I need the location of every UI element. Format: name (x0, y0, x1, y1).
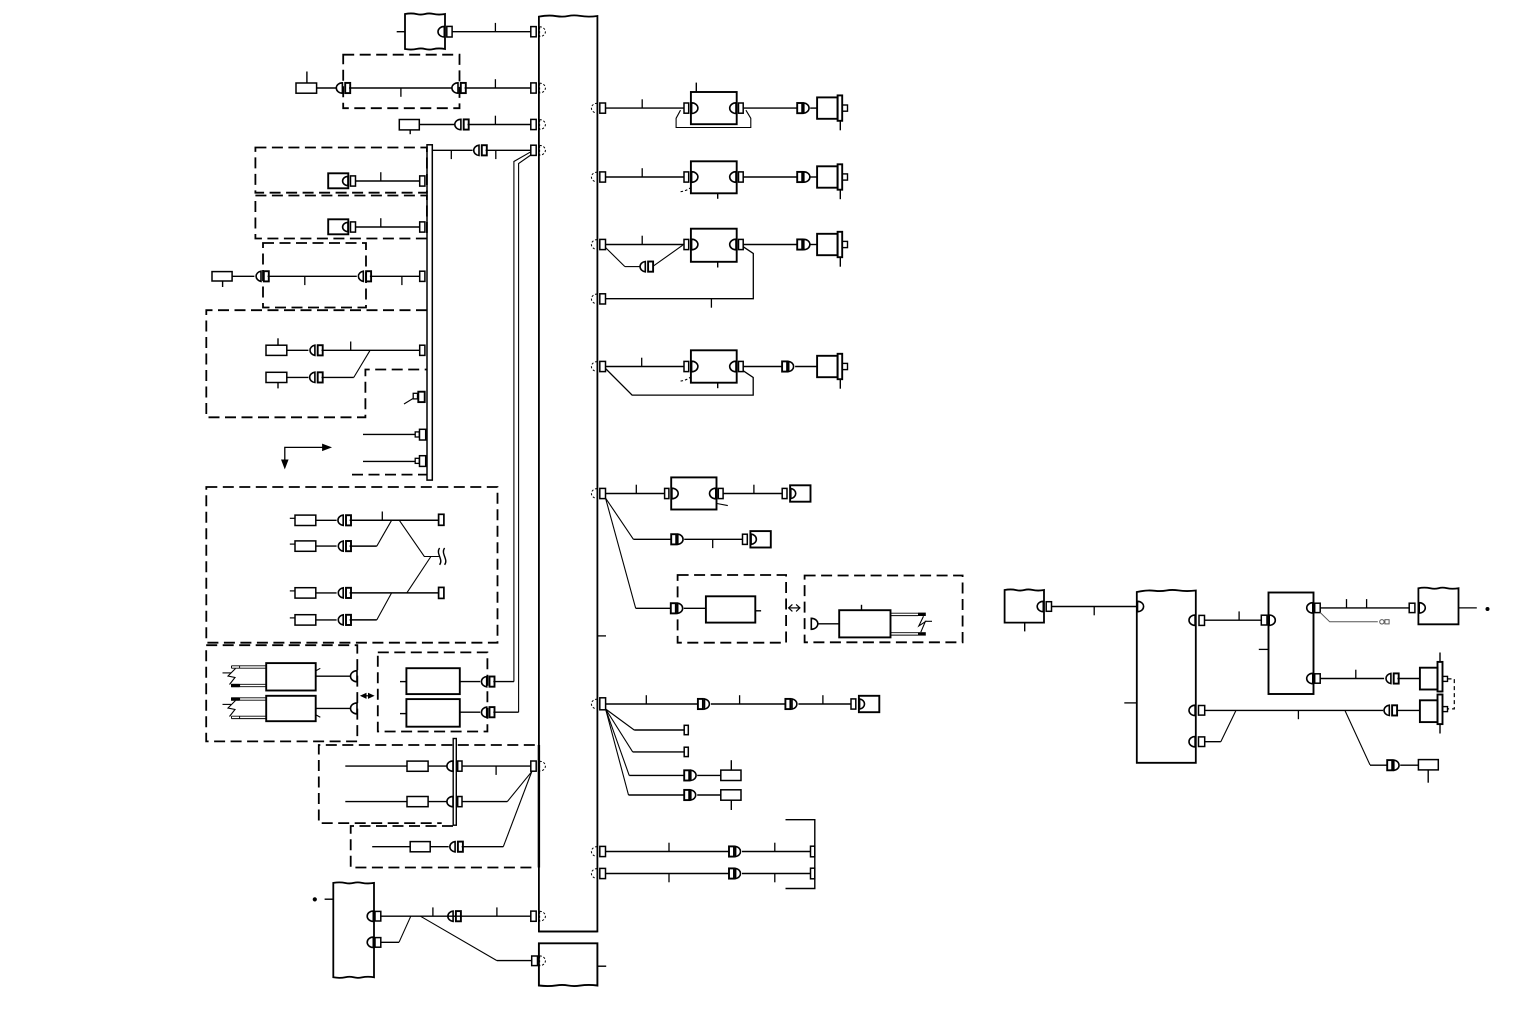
wire (372, 846, 410, 848)
lamp dashed box 6 (206, 487, 497, 643)
wire (636, 607, 671, 609)
wire (606, 851, 730, 853)
capped stub (1320, 613, 1378, 622)
connector into junction box (1261, 615, 1267, 625)
wire (356, 180, 420, 182)
bottom box stub (597, 965, 606, 967)
shield bracket (676, 110, 751, 127)
reference arrow (285, 447, 330, 464)
connector half (351, 703, 357, 714)
terminal (811, 846, 815, 857)
branch wire (606, 709, 629, 795)
terminal (458, 761, 462, 771)
wire (810, 107, 817, 109)
relay B (406, 699, 459, 727)
plug (415, 432, 419, 437)
switch dashed box 2 (255, 148, 427, 193)
wire (377, 593, 392, 620)
branch wire (606, 709, 633, 752)
wire (452, 31, 531, 33)
bus connector (591, 294, 597, 304)
broken-wire mark (228, 701, 236, 717)
connector pair (450, 842, 455, 852)
terminal (420, 345, 425, 355)
connector pair (481, 707, 486, 717)
component B3 (212, 272, 232, 281)
unit connector 1 (367, 911, 373, 921)
module U7 (839, 610, 890, 637)
wire (742, 851, 811, 853)
connector pair (1384, 705, 1389, 715)
relay dashed box 8 (378, 652, 488, 731)
broken-wire mark (228, 669, 236, 685)
terminal (420, 222, 425, 232)
mating arrow (789, 607, 800, 609)
wire (697, 774, 721, 776)
wire (633, 538, 671, 540)
wire (723, 493, 782, 495)
section connector 1 (1189, 615, 1195, 625)
source box right (torn) (1005, 589, 1044, 622)
bus connector (531, 761, 536, 771)
power feed stub (397, 31, 405, 33)
wire (419, 124, 454, 126)
wire (317, 87, 337, 89)
connector half (351, 671, 357, 682)
bulb B520 (295, 515, 316, 525)
module U1 (684, 103, 689, 113)
wire (381, 915, 531, 917)
wire (350, 592, 439, 594)
wire (350, 519, 439, 521)
junction box (1269, 593, 1314, 695)
module dashed box 7 (206, 645, 357, 741)
wire (1396, 709, 1420, 711)
section connector 2 (1189, 705, 1195, 715)
harness section box (torn top) (1137, 590, 1196, 763)
wire (711, 703, 786, 705)
bus connector (531, 83, 536, 93)
wire (316, 675, 351, 677)
stub (1124, 702, 1137, 704)
blind plug (413, 393, 417, 399)
wire (381, 941, 399, 943)
component S1 (328, 173, 348, 188)
strain stub (316, 715, 321, 717)
wire (345, 765, 407, 767)
connector half (811, 618, 818, 629)
return loop (606, 247, 754, 299)
connector strip (453, 739, 456, 826)
module U3 (684, 239, 689, 249)
source box far right (torn) (1418, 588, 1458, 625)
wire (743, 244, 797, 246)
connector pair (684, 790, 689, 800)
component with pigtails B (266, 696, 316, 721)
terminal (420, 176, 425, 186)
wire (377, 520, 392, 546)
wire (316, 707, 351, 709)
module dashed box 12 (805, 576, 963, 643)
junction bar (427, 145, 432, 480)
wire (349, 87, 452, 89)
connector pair (1386, 673, 1391, 683)
row R6 : bus connector and harness fan-out (591, 699, 597, 709)
wire (428, 801, 447, 803)
wire (684, 538, 742, 540)
wire (606, 176, 685, 178)
dashed box 10 (351, 826, 535, 868)
wire (606, 107, 685, 109)
wire (1320, 678, 1384, 680)
connector pair (698, 699, 703, 709)
wire (606, 493, 665, 495)
wire (798, 703, 851, 705)
connector pair (448, 911, 453, 921)
twist break (438, 548, 440, 565)
wire (325, 898, 334, 900)
connector half (1138, 601, 1144, 611)
connector pair (358, 271, 363, 281)
sensor (782, 488, 787, 498)
source box (torn) (405, 13, 445, 49)
sensor dashed box 5 (L-shaped) (206, 310, 427, 417)
component B11 (1418, 760, 1438, 770)
mating arrow (363, 695, 371, 697)
branch wire (606, 709, 630, 775)
wire (1397, 678, 1420, 680)
row R2 : bus connector, module, actuator M2 (591, 172, 597, 182)
module dashed box 11 (678, 575, 787, 643)
component B2 (399, 120, 419, 130)
wire (430, 846, 449, 848)
wire (1205, 709, 1384, 711)
wire (465, 87, 531, 89)
bottom connector box (torn bottom) (539, 943, 598, 986)
junction dot (313, 897, 317, 901)
wire (606, 703, 698, 705)
relay dashed box 1 (343, 55, 459, 108)
bus left edge emphasis at dashed boxes (538, 745, 540, 868)
wire (350, 545, 377, 547)
component with pigtails A (266, 663, 316, 690)
wire (653, 245, 683, 266)
connector into right source (1409, 603, 1415, 612)
connector pair (310, 372, 315, 382)
pigtail wires (891, 612, 919, 614)
bus bottom edge (539, 931, 598, 933)
connector pair (640, 262, 645, 272)
wire (606, 366, 685, 368)
row R3 : bus connector, module, actuator M3 (591, 240, 597, 250)
connector pair (729, 868, 734, 878)
terminal (439, 514, 444, 525)
plug (415, 458, 419, 463)
connector pair (455, 119, 461, 129)
wire (287, 376, 309, 378)
module U4 (684, 361, 689, 371)
branch wire (606, 498, 636, 608)
section connector 3 (1189, 737, 1195, 747)
wire (1320, 607, 1409, 609)
actuator M1 (817, 97, 838, 118)
unit connector 2 (367, 937, 373, 947)
connector half (447, 796, 453, 806)
wire (742, 873, 811, 875)
connector on source (1037, 601, 1043, 611)
connector pair (797, 172, 802, 182)
wire (268, 275, 357, 277)
wire (743, 176, 797, 178)
wire (795, 366, 817, 368)
bus connector (531, 119, 536, 129)
wire (345, 801, 407, 803)
wire (493, 681, 514, 683)
terminal (684, 725, 688, 734)
wire (363, 460, 415, 462)
connector pair (338, 588, 343, 598)
component B9 (721, 770, 741, 780)
main harness bus (torn top) (539, 15, 598, 931)
terminal (439, 587, 444, 598)
row B : bus connector and shielded pair (591, 869, 597, 879)
connector pair (452, 83, 458, 93)
connector pair (336, 83, 342, 93)
wire (350, 619, 377, 621)
junction connector 1 (1307, 603, 1313, 613)
wire (468, 124, 531, 126)
connector pair (797, 103, 802, 113)
wire (743, 107, 797, 109)
switch dashed box 4 (263, 243, 366, 308)
pump motor P2 (1420, 700, 1438, 722)
wire (432, 149, 472, 151)
wire (404, 398, 413, 404)
component B10 (721, 790, 741, 800)
wire (493, 711, 518, 713)
sensor (743, 534, 748, 544)
wire (684, 607, 706, 609)
bus connector (531, 911, 536, 921)
connector pair (338, 541, 343, 551)
component S2 (328, 219, 348, 234)
bus connector (531, 145, 536, 155)
terminal (811, 868, 815, 879)
wire (810, 176, 817, 178)
actuator M3 (817, 234, 838, 255)
row A : bus connector and shielded pair (591, 847, 597, 857)
sensor (851, 699, 856, 709)
connector pair (256, 271, 261, 281)
wire to bottom box (420, 916, 497, 960)
wire (407, 557, 431, 593)
wire (363, 433, 415, 435)
wire (322, 376, 354, 378)
wire (460, 711, 480, 713)
wire (462, 846, 504, 848)
wire (606, 873, 730, 875)
bulb B619 (295, 615, 316, 625)
actuator M4 (817, 356, 838, 377)
wire (399, 520, 439, 556)
wire (322, 349, 420, 351)
connector pair (797, 239, 802, 249)
component B7 (407, 797, 428, 807)
wire (1205, 741, 1221, 743)
dashed partition (352, 474, 427, 476)
wire (370, 275, 420, 277)
wire (232, 275, 254, 277)
component B1 (296, 83, 317, 93)
relay A (406, 668, 459, 694)
wire (462, 801, 507, 803)
module U6 (706, 596, 755, 622)
connector pair (684, 770, 689, 780)
bottom box connector (532, 956, 538, 966)
connector on source box (438, 26, 444, 37)
component B6 (407, 761, 428, 771)
twisted pair drop wire (514, 152, 531, 682)
connector pair (782, 361, 787, 371)
wire (1052, 606, 1137, 608)
wire (460, 681, 480, 683)
connector pair (310, 345, 315, 355)
broken-wire mark (919, 616, 925, 632)
wire (743, 366, 782, 368)
wire (354, 350, 370, 377)
row R1 : bus connector, wire, inline module, actuator M1 (591, 103, 597, 113)
switch dashed box 3 (255, 196, 427, 239)
connector pair (474, 145, 479, 155)
wire (1400, 764, 1418, 766)
connector pair (338, 615, 343, 625)
dashed box 9 (319, 745, 535, 823)
terminal (420, 271, 425, 281)
wire (428, 765, 447, 767)
stub wire (1459, 607, 1477, 609)
pump motor P1 (1420, 668, 1438, 690)
shield bracket (786, 820, 815, 889)
connector pair (785, 699, 790, 709)
module U2 (684, 172, 689, 182)
branch wire (1345, 710, 1370, 765)
terminal (458, 797, 462, 807)
module U5 (665, 488, 669, 498)
strain stub (316, 668, 321, 671)
return loop (606, 369, 754, 396)
wire (356, 226, 420, 228)
actuator M2 (817, 166, 838, 187)
bypass wire (606, 248, 625, 267)
bulb B546 (295, 541, 316, 551)
connector pair (729, 846, 734, 856)
wire (810, 244, 817, 246)
connector pair (481, 677, 486, 687)
connector half (447, 761, 453, 771)
terminal (684, 747, 688, 756)
wire (818, 623, 840, 625)
connector pair (1387, 760, 1392, 770)
bulb B592 (295, 588, 316, 598)
component B8 (410, 842, 430, 852)
wire (1205, 619, 1262, 621)
bus partition tick (597, 635, 606, 637)
wire (606, 244, 685, 246)
connector pair (671, 603, 676, 613)
component B5 (266, 372, 287, 382)
junction connector 2 (1307, 673, 1313, 683)
wire (287, 349, 309, 351)
connector pair (338, 515, 343, 525)
dashed link (1448, 679, 1455, 709)
wire (697, 794, 721, 796)
row R5 : bus connector, module, sensor (591, 489, 597, 499)
branch wire (606, 709, 635, 730)
component B4 (266, 345, 287, 355)
branch wire (606, 498, 634, 539)
connector pair (671, 534, 676, 544)
bus connector (531, 27, 536, 37)
row R4 : bus connector, module, actuator M4 (591, 362, 597, 372)
wire (486, 149, 531, 151)
control unit box (torn) (333, 882, 374, 978)
wire (462, 765, 531, 767)
